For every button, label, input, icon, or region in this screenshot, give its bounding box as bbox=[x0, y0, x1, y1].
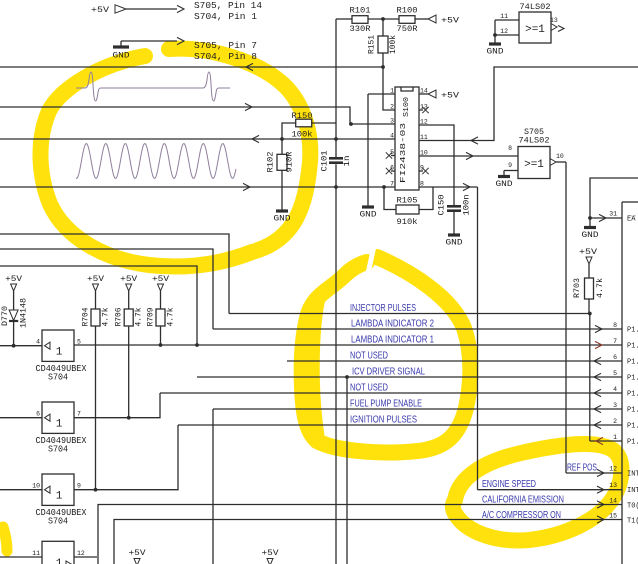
svg-text:LAMBDA INDICATOR 2: LAMBDA INDICATOR 2 bbox=[351, 319, 434, 330]
svg-text:1: 1 bbox=[613, 434, 617, 441]
svg-text:+5V: +5V bbox=[5, 274, 23, 284]
svg-text:GND: GND bbox=[360, 211, 377, 220]
svg-text:13: 13 bbox=[550, 17, 558, 24]
svg-text:9: 9 bbox=[508, 162, 512, 169]
svg-text:8: 8 bbox=[613, 322, 617, 329]
svg-text:S100: S100 bbox=[403, 97, 411, 117]
svg-text:2: 2 bbox=[390, 104, 394, 111]
svg-text:C101: C101 bbox=[321, 150, 330, 171]
svg-text:4.7k: 4.7k bbox=[102, 307, 111, 326]
svg-text:GND: GND bbox=[582, 231, 599, 240]
svg-text:11: 11 bbox=[32, 550, 40, 557]
svg-text:T1(P: T1(P bbox=[627, 518, 638, 526]
svg-text:P1.4: P1.4 bbox=[627, 375, 638, 383]
svg-text:S704, Pin 1: S704, Pin 1 bbox=[194, 11, 257, 22]
svg-text:NOT USED: NOT USED bbox=[350, 383, 388, 394]
svg-text:3: 3 bbox=[390, 118, 394, 125]
svg-text:7: 7 bbox=[390, 181, 394, 188]
svg-text:100k: 100k bbox=[292, 130, 313, 140]
svg-text:13: 13 bbox=[420, 104, 428, 111]
svg-text:R709: R709 bbox=[147, 307, 156, 326]
svg-text:REF POS: REF POS bbox=[567, 463, 597, 474]
svg-text:FI2438-03: FI2438-03 bbox=[400, 123, 408, 183]
svg-text:330R: 330R bbox=[350, 24, 371, 34]
svg-text:R102: R102 bbox=[267, 151, 276, 172]
svg-text:R150: R150 bbox=[292, 111, 313, 121]
svg-text:ICV DRIVER SIGNAL: ICV DRIVER SIGNAL bbox=[352, 367, 425, 378]
svg-text:GND: GND bbox=[446, 239, 463, 248]
svg-text:1: 1 bbox=[56, 419, 63, 431]
svg-text:9: 9 bbox=[420, 165, 424, 172]
svg-text:+5V: +5V bbox=[120, 274, 138, 284]
svg-text:1: 1 bbox=[390, 88, 394, 95]
svg-text:GND: GND bbox=[496, 180, 513, 189]
svg-text:R101: R101 bbox=[350, 6, 371, 16]
svg-text:S704: S704 bbox=[48, 445, 68, 455]
svg-text:5: 5 bbox=[77, 339, 81, 346]
svg-text:P1.6: P1.6 bbox=[627, 343, 638, 351]
svg-text:15: 15 bbox=[609, 513, 617, 520]
svg-text:R706: R706 bbox=[115, 307, 124, 326]
svg-text:1: 1 bbox=[56, 491, 63, 503]
svg-text:750R: 750R bbox=[397, 24, 418, 34]
svg-text:P1.0: P1.0 bbox=[627, 439, 638, 447]
svg-text:R151: R151 bbox=[368, 35, 377, 54]
svg-text:1: 1 bbox=[56, 558, 63, 564]
svg-text:R703: R703 bbox=[573, 278, 582, 298]
svg-text:A/C COMPRESSOR ON: A/C COMPRESSOR ON bbox=[482, 510, 561, 521]
svg-text:P1.5: P1.5 bbox=[627, 359, 638, 367]
svg-text:GND: GND bbox=[487, 48, 504, 57]
svg-text:4.7k: 4.7k bbox=[135, 307, 144, 326]
svg-text:NOT USED: NOT USED bbox=[350, 351, 388, 362]
svg-text:GND: GND bbox=[113, 52, 130, 61]
svg-text:T0(P: T0(P bbox=[627, 503, 638, 511]
svg-text:12: 12 bbox=[77, 550, 85, 557]
svg-text:12: 12 bbox=[609, 466, 617, 473]
svg-text:910R: 910R bbox=[286, 151, 295, 172]
svg-text:4.7k: 4.7k bbox=[167, 307, 176, 326]
svg-text:+5V: +5V bbox=[91, 5, 110, 15]
svg-text:6: 6 bbox=[613, 354, 617, 361]
svg-text:LAMBDA INDICATOR 1: LAMBDA INDICATOR 1 bbox=[351, 335, 434, 346]
svg-text:8: 8 bbox=[508, 145, 512, 152]
svg-text:ENGINE SPEED: ENGINE SPEED bbox=[482, 479, 536, 490]
svg-text:6: 6 bbox=[390, 165, 394, 172]
svg-text:3: 3 bbox=[613, 402, 617, 409]
svg-text:P1.7: P1.7 bbox=[627, 327, 638, 335]
svg-text:31: 31 bbox=[609, 211, 617, 218]
svg-text:74LS02: 74LS02 bbox=[519, 136, 550, 146]
svg-text:2: 2 bbox=[613, 418, 617, 425]
svg-text:S705, Pin 14: S705, Pin 14 bbox=[194, 0, 262, 11]
svg-text:4.7k: 4.7k bbox=[596, 278, 605, 298]
svg-text:CALIFORNIA EMISSION: CALIFORNIA EMISSION bbox=[482, 495, 564, 506]
svg-text:13: 13 bbox=[609, 482, 617, 489]
svg-text:INT0: INT0 bbox=[627, 471, 638, 479]
svg-text:+5V: +5V bbox=[441, 16, 460, 26]
svg-text:4: 4 bbox=[36, 339, 40, 346]
svg-text:1N4148: 1N4148 bbox=[20, 298, 29, 328]
svg-text:>=1: >=1 bbox=[524, 159, 544, 171]
svg-text:>=1: >=1 bbox=[525, 24, 545, 36]
svg-text:EA: EA bbox=[627, 216, 636, 224]
svg-text:+5V: +5V bbox=[441, 91, 460, 101]
svg-text:S704, Pin 8: S704, Pin 8 bbox=[194, 51, 257, 62]
svg-text:74LS02: 74LS02 bbox=[520, 2, 551, 12]
svg-text:4: 4 bbox=[613, 386, 617, 393]
svg-text:10: 10 bbox=[556, 153, 564, 160]
svg-text:+5V: +5V bbox=[152, 274, 170, 284]
svg-text:+5V: +5V bbox=[579, 247, 598, 257]
svg-text:100k: 100k bbox=[389, 35, 398, 54]
svg-text:D770: D770 bbox=[1, 306, 10, 326]
svg-text:10: 10 bbox=[32, 483, 40, 490]
svg-text:1: 1 bbox=[56, 347, 63, 359]
svg-text:S705, Pin 7: S705, Pin 7 bbox=[194, 40, 257, 51]
svg-text:14: 14 bbox=[609, 498, 617, 505]
svg-text:5: 5 bbox=[613, 370, 617, 377]
svg-text:7: 7 bbox=[613, 338, 617, 345]
svg-text:R105: R105 bbox=[397, 196, 418, 206]
svg-text:P1.2: P1.2 bbox=[627, 407, 638, 415]
svg-text:IGNITION PULSES: IGNITION PULSES bbox=[350, 415, 417, 426]
svg-text:11: 11 bbox=[500, 13, 508, 20]
svg-text:S704: S704 bbox=[48, 517, 68, 527]
svg-text:C150: C150 bbox=[438, 194, 447, 215]
svg-text:R100: R100 bbox=[397, 6, 418, 16]
svg-text:5: 5 bbox=[390, 149, 394, 156]
svg-text:S704: S704 bbox=[48, 373, 68, 383]
svg-text:12: 12 bbox=[500, 28, 508, 35]
svg-text:GND: GND bbox=[274, 215, 291, 224]
svg-text:+5V: +5V bbox=[262, 548, 280, 558]
svg-text:FUEL PUMP ENABLE: FUEL PUMP ENABLE bbox=[350, 399, 422, 410]
svg-text:+5V: +5V bbox=[129, 548, 147, 558]
svg-text:1n: 1n bbox=[343, 155, 352, 166]
svg-text:INT1: INT1 bbox=[627, 487, 638, 495]
svg-text:INJECTOR PULSES: INJECTOR PULSES bbox=[350, 303, 416, 314]
svg-text:6: 6 bbox=[36, 411, 40, 418]
svg-text:9: 9 bbox=[77, 483, 81, 490]
svg-text:4: 4 bbox=[390, 133, 394, 140]
svg-text:+5V: +5V bbox=[87, 274, 105, 284]
svg-text:P1.3: P1.3 bbox=[627, 391, 638, 399]
svg-text:100n: 100n bbox=[463, 194, 472, 215]
svg-text:910k: 910k bbox=[397, 217, 418, 227]
svg-text:R704: R704 bbox=[82, 307, 91, 326]
svg-text:P1.1: P1.1 bbox=[627, 423, 638, 431]
svg-text:7: 7 bbox=[77, 411, 81, 418]
